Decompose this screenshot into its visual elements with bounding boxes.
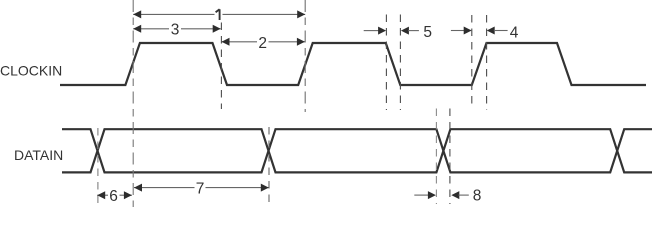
dimension 7 left arrowhead [134,184,142,192]
node dashed line I (data X3 end, x=449.9) [449,109,451,205]
dimension 8 right outside arrow [451,191,459,199]
svg-text:CLOCKIN: CLOCKIN [0,63,62,79]
dimension 1 (clock period) line [133,13,214,15]
dimension 2 right arrowhead [297,38,305,46]
svg-text:7: 7 [196,180,205,197]
dimension 4 (clock rise time) left outside arrow [451,30,465,32]
dimension 5 right outside arrow [401,27,409,35]
dimension 1 label [216,9,220,20]
svg-text:2: 2 [258,35,267,52]
dimension 7 right arrowhead [261,184,269,192]
node dashed line A (clock rise 1 mid, x=133.2) [132,0,134,207]
dimension 6 (data setup) line [97,194,108,196]
node dashed line F (clock rise 3 start, x=471.8) [471,15,473,109]
svg-text:6: 6 [109,188,118,205]
svg-text:8: 8 [473,187,482,204]
node dashed line K (data X2 center, x=268.5) [268,127,270,205]
dimension 3 right arrowhead [213,25,221,33]
node dashed line C (clock rise 2 mid, x=305.2) [304,0,306,112]
dimension 6 right arrowhead [124,191,132,199]
dimension 7 (data hold) line [134,187,195,189]
node dashed line G (clock rise 3 end, x=486.6) [486,15,488,110]
wire CLOCKIN waveform [60,43,646,85]
dimension 1 right arrowhead [297,10,305,18]
svg-text:5: 5 [423,24,432,41]
svg-text:DATAIN: DATAIN [14,147,63,163]
dimension 3 left arrowhead [133,25,141,33]
node dashed line D (clock fall 2 start, x=386.4) [385,15,387,111]
dimension 2 left arrowhead [222,38,230,46]
dimension 2 (clock low pulse) line [222,41,258,43]
dimension 3 (clock high pulse) line [133,28,169,30]
node dashed line H (data X3 start, x=436.4) [435,109,437,205]
dimension 4 right outside arrow [487,27,495,35]
svg-text:3: 3 [171,21,180,38]
node dashed line E (clock fall 2 end, x=400.4) [399,15,401,111]
wire DATAIN top-to-bottom crossing rail [62,129,652,172]
dimension 1 left arrowhead [133,10,141,18]
dimension 8 (data transition) left outside arrow [414,194,429,196]
node dashed line J (data X1 center, x=97.9) [97,128,99,207]
wire DATAIN bottom-to-top crossing rail [62,129,652,172]
dimension 6 left arrowhead [97,191,105,199]
node dashed line B (clock fall 1 mid, x=221.4) [220,23,222,110]
svg-text:4: 4 [510,25,519,42]
dimension 5 (clock fall time) left outside arrow [364,30,379,32]
